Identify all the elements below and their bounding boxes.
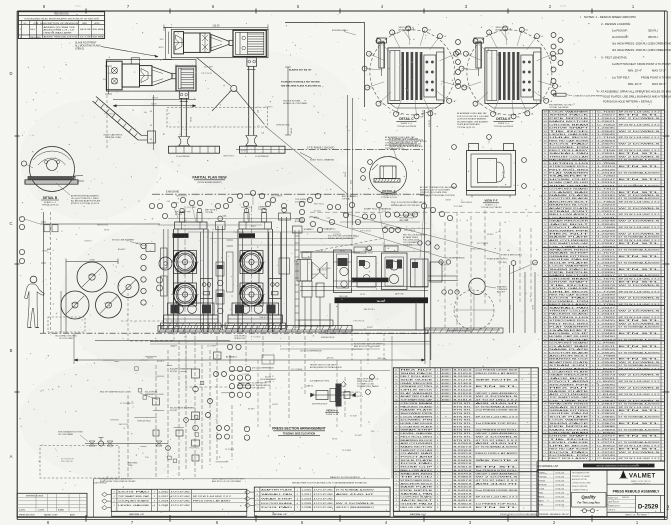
- svg-text:101: 101: [544, 137, 547, 139]
- svg-text:EXIST: EXIST: [426, 208, 432, 210]
- svg-text:SEE NOTE 4: SEE NOTE 4: [176, 196, 187, 198]
- svg-text:B-9460.8: B-9460.8: [454, 503, 474, 505]
- operator figure: [25, 276, 45, 327]
- svg-text:DRAWN: DRAWN: [539, 471, 546, 474]
- svg-text:67 T6 NOMINAL A-823592: 67 T6 NOMINAL A-823592: [336, 488, 375, 491]
- svg-text:B-9469.8: B-9469.8: [454, 507, 474, 509]
- customer section dashed box: [48, 317, 85, 340]
- svg-text:110.25: 110.25: [212, 24, 220, 27]
- svg-text:6: 6: [396, 490, 397, 492]
- svg-text:MIN. 40'-4": MIN. 40'-4": [628, 82, 642, 86]
- svg-text:3rd HIGH PRESS: 1500 PLI (145: 3rd HIGH PRESS: 1500 PLI (1450 OPERATING…: [612, 48, 671, 52]
- title block tolerance column: [537, 470, 571, 516]
- svg-text:R.T.W 4-98: R.T.W 4-98: [556, 476, 564, 478]
- svg-text:SEE NOTE 4: SEE NOTE 4: [97, 225, 108, 227]
- svg-text:13: 13: [544, 420, 546, 422]
- right lower balloons: [206, 372, 230, 440]
- svg-text:TIE ROD: TIE ROD: [549, 439, 591, 441]
- drive train couplings row: [297, 246, 458, 364]
- svg-text:TOP SHAFT END CAP: TOP SHAFT END CAP: [118, 495, 150, 498]
- svg-text:31: 31: [544, 362, 546, 364]
- basement components on risers: [93, 352, 221, 485]
- svg-text:ALL MOUNTING PLANS: ALL MOUNTING PLANS: [75, 44, 101, 47]
- svg-text:1-2324: 1-2324: [158, 501, 169, 503]
- elevation floor lines: [40, 330, 500, 364]
- svg-text:WASHOUT FLOOR ELEVATION: WASHOUT FLOOR ELEVATION: [330, 476, 360, 479]
- title block: [537, 470, 665, 516]
- svg-text:TO SUIT: TO SUIT: [350, 416, 358, 418]
- svg-text:1st BOTTOM FELT: FROM POINT A: 1st BOTTOM FELT: FROM POINT A TO POINT B: [612, 62, 671, 66]
- svg-text:COUPLING GUARD: COUPLING GUARD: [400, 496, 433, 499]
- svg-text:VIEW H-H: VIEW H-H: [326, 408, 338, 412]
- svg-text:W.E.HSIA: W.E.HSIA: [93, 36, 105, 39]
- svg-text:W/ 2 DOWELS: W/ 2 DOWELS: [336, 503, 376, 505]
- svg-text:2: 2: [396, 503, 397, 505]
- drive unit A pedestal shaft: [246, 58, 257, 146]
- svg-text:RECORD DIMENSIONS OF EXISTING: RECORD DIMENSIONS OF EXISTING EQUIPMENT: [597, 466, 641, 468]
- svg-text:47-TO-37 UNC: 47-TO-37 UNC: [314, 503, 334, 505]
- svg-text:LOCK WASHER: LOCK WASHER: [549, 111, 589, 114]
- svg-text:MAX 49'-3": MAX 49'-3": [652, 82, 666, 86]
- svg-text:MAIN MOTOR: MAIN MOTOR: [549, 120, 590, 123]
- svg-text:REFERENCE DWGS: REFERENCE DWGS: [26, 496, 44, 498]
- svg-text:R.T.W 4-98: R.T.W 4-98: [556, 492, 564, 494]
- svg-text:8: 8: [396, 483, 397, 485]
- svg-text:GROUP 1 (SEE ASSEMBLY): GROUP 1 (SEE ASSEMBLY): [336, 506, 374, 509]
- svg-text:APPROVE: APPROVE: [539, 483, 548, 486]
- pedestal dimension labels: [191, 110, 294, 134]
- svg-text:2nd PRESS DRIVE SIDE: 2nd PRESS DRIVE SIDE: [476, 369, 519, 371]
- svg-text:1-23014: 1-23014: [597, 118, 617, 120]
- machine centerline: [152, 191, 425, 195]
- svg-text:TOLER.: TOLER.: [539, 488, 546, 490]
- top margin scan smudges: [75, 4, 567, 7]
- svg-text:C-8352: C-8352: [597, 445, 617, 447]
- svg-text:HEX NUT: HEX NUT: [400, 369, 435, 371]
- svg-text:UHLE BOX: UHLE BOX: [400, 390, 434, 392]
- detail E roll section: [459, 26, 562, 128]
- svg-text:100: 100: [544, 140, 547, 142]
- svg-text:38: 38: [395, 383, 397, 385]
- svg-text:1-2317: 1-2317: [301, 494, 312, 496]
- svg-text:47-TO-37 UNC: 47-TO-37 UNC: [171, 496, 191, 498]
- note under detail C: [385, 112, 490, 150]
- bottom parts table B: [254, 487, 390, 516]
- svg-text:DATE: DATE: [82, 22, 87, 25]
- svg-text:B-9127.8: B-9127.8: [454, 379, 474, 381]
- svg-text:Quality: Quality: [581, 494, 596, 499]
- svg-text:1-2317: 1-2317: [158, 496, 169, 498]
- svg-text:EXIST: EXIST: [446, 200, 452, 202]
- svg-text:DOG PAD: DOG PAD: [118, 491, 151, 494]
- svg-text:1: 1: [396, 507, 397, 509]
- svg-text:47-TO-37 UNC: 47-TO-37 UNC: [314, 498, 334, 500]
- svg-text:SAVEALL PAN: SAVEALL PAN: [400, 492, 433, 495]
- svg-text:UNDER BRACKET AS A TEMPLATE: UNDER BRACKET AS A TEMPLATE: [389, 145, 423, 148]
- svg-text:E-S WASHOUT SPCL: E-S WASHOUT SPCL: [310, 379, 331, 382]
- center parts list table: [393, 368, 538, 516]
- view F-F frame section: [420, 135, 526, 209]
- felt roll 1: [77, 262, 107, 292]
- svg-text:ITEM 94 WAS LATER: ITEM 94 WAS LATER: [44, 32, 73, 35]
- svg-text:R.T.W 4-98: R.T.W 4-98: [556, 500, 564, 502]
- upper balloons row: [299, 201, 417, 224]
- tie brace diagonals with node: [197, 58, 265, 125]
- svg-text:SP 23 W 1-1/4 UNC 2 X 2: SP 23 W 1-1/4 UNC 2 X 2: [619, 445, 662, 447]
- svg-text:APPR: APPR: [95, 22, 101, 25]
- svg-text:ADDED (2) ITEM 126: ADDED (2) ITEM 126: [44, 26, 76, 29]
- svg-text:W/ 2 DOWELS: W/ 2 DOWELS: [619, 131, 662, 133]
- svg-text:(29 & 7.5) REFERENCE: (29 & 7.5) REFERENCE: [252, 368, 274, 370]
- svg-text:COPIED OR DISCLOSED: COPIED OR DISCLOSED: [572, 483, 591, 485]
- svg-text:STEM UP (IF) LOCATE PINS: STEM UP (IF) LOCATE PINS: [420, 191, 447, 194]
- svg-text:04-3-98: 04-3-98: [80, 29, 91, 31]
- svg-text:C-8404: C-8404: [597, 458, 617, 460]
- svg-text:88: 88: [544, 179, 546, 181]
- drive area foundation pads: [425, 328, 503, 333]
- svg-text:CUSTOM PILE: CUSTOM PILE: [93, 483, 107, 485]
- svg-text:VIEW F-F: VIEW F-F: [484, 199, 497, 203]
- bottom parts table A: [111, 489, 247, 516]
- svg-text:1st PRESS TOP ROLL: 1st PRESS TOP ROLL: [476, 502, 520, 505]
- svg-text:DRIVE SHAFT: DRIVE SHAFT: [549, 435, 590, 438]
- svg-text:FOR 1/2-13 UNC-2B X 1.00 DEEP: FOR 1/2-13 UNC-2B X 1.00 DEEP: [457, 116, 490, 118]
- svg-text:A: A: [10, 454, 13, 459]
- svg-text:99: 99: [544, 144, 546, 146]
- svg-text:30: 30: [544, 365, 546, 367]
- svg-text:2: 2: [667, 505, 670, 511]
- svg-text:3rd HIGH PRESS: 1500 PLI (135: 3rd HIGH PRESS: 1500 PLI (1350 OPERATING…: [612, 42, 671, 46]
- svg-text:HOUSING BASE, USE BLANKET: HOUSING BASE, USE BLANKET: [457, 120, 489, 123]
- svg-text:FIELD DRILL AT ASSY: FIELD DRILL AT ASSY: [193, 500, 232, 503]
- svg-text:PRESSURE + RELEASE NO. PBL-23-: PRESSURE + RELEASE NO. PBL-23-7: [539, 513, 569, 516]
- svg-text:7: 7: [396, 487, 397, 489]
- svg-text:MIN. 20'-4": MIN. 20'-4": [628, 69, 642, 73]
- felt roll 3: [96, 292, 122, 318]
- felt roll 4: [118, 277, 139, 298]
- svg-text:4: 4: [396, 497, 397, 499]
- svg-text:PRESS DRIVES & CONTROLS MECHAN: PRESS DRIVES & CONTROLS MECHANISM: [500, 513, 537, 516]
- svg-text:REVISIONS: REVISIONS: [54, 12, 68, 16]
- svg-text:HEX HD CAP SCRW: HEX HD CAP SCRW: [400, 506, 432, 509]
- drive unit B dimension lines: [103, 66, 196, 150]
- svg-text:5: 5: [396, 493, 397, 495]
- svg-text:1-2310: 1-2310: [301, 489, 312, 491]
- svg-text:SOLE PLATES, USE DRILL BUSHING: SOLE PLATES, USE DRILL BUSHINGS AND A TE…: [603, 95, 671, 99]
- svg-text:R.T.W 4-98: R.T.W 4-98: [556, 496, 564, 498]
- svg-text:17: 17: [544, 407, 546, 409]
- svg-text:REF LINE: REF LINE: [377, 358, 386, 360]
- svg-text:GUIDE PALM: GUIDE PALM: [400, 502, 433, 505]
- svg-text:MAX 72'-2": MAX 72'-2": [652, 69, 666, 73]
- press base plate 3rd press: [169, 146, 220, 158]
- svg-text:C: C: [9, 221, 12, 226]
- upper leader shelf lines: [158, 219, 430, 252]
- svg-text:47-TO-37 UNC: 47-TO-37 UNC: [314, 489, 334, 491]
- svg-text:SCALE 1 = 1: SCALE 1 = 1: [485, 203, 498, 206]
- plan view long dimension verticals: [345, 95, 431, 360]
- svg-text:E MACHINE: E MACHINE: [166, 191, 179, 194]
- svg-text:SP 23 W 1-1/4 UNC 2 X 2: SP 23 W 1-1/4 UNC 2 X 2: [476, 497, 520, 499]
- svg-text:PLATE AS A TEMPLATE: PLATE AS A TEMPLATE: [457, 123, 480, 126]
- svg-text:FELT ROLL: FELT ROLL: [353, 349, 363, 351]
- zone marker diamond at center table: [341, 382, 347, 388]
- svg-text:B-9424.8: B-9424.8: [454, 490, 474, 492]
- svg-text:D-2530: D-2530: [38, 509, 44, 511]
- svg-text:COUPLING GUARD: COUPLING GUARD: [118, 500, 150, 503]
- svg-text:104: 104: [544, 128, 547, 130]
- svg-text:VALMET CORP: VALMET CORP: [44, 513, 58, 516]
- svg-text:SCALE 1 = 10: SCALE 1 = 10: [326, 413, 338, 416]
- svg-text:85: 85: [544, 189, 546, 191]
- notes above bottom tables: [93, 476, 390, 485]
- balloon column between details: [456, 40, 461, 85]
- svg-text:TO SUIT: TO SUIT: [355, 435, 363, 437]
- foundation hatched strip: [150, 326, 430, 345]
- svg-text:16: 16: [544, 410, 546, 412]
- mid drive balloons: [418, 241, 459, 294]
- svg-text:DOG PAD: DOG PAD: [261, 506, 294, 509]
- svg-text:FRAC.: FRAC.: [539, 491, 545, 494]
- svg-text:67 T6 NOMINAL A-823592: 67 T6 NOMINAL A-823592: [619, 441, 662, 444]
- machine centerline phase 1: [286, 146, 426, 161]
- svg-text:SP 23 W 1-1/4 UNC 2 X 2: SP 23 W 1-1/4 UNC 2 X 2: [619, 124, 662, 126]
- svg-text:103: 103: [544, 131, 547, 133]
- svg-text:x rrv-a: x rrv-a: [75, 5, 82, 7]
- svg-text:21: 21: [544, 394, 546, 396]
- drive support feet: [325, 303, 428, 333]
- svg-text:PIPE NIPPLE: PIPE NIPPLE: [400, 490, 434, 492]
- svg-text:WEAR STRIP: WEAR STRIP: [261, 497, 293, 500]
- svg-text:20: 20: [544, 397, 546, 399]
- svg-text:TYPICAL 2nd PRESS: TYPICAL 2nd PRESS: [397, 125, 417, 128]
- svg-text:SEE NOTE 4: SEE NOTE 4: [476, 379, 521, 381]
- svg-text:110: 110: [258, 110, 260, 113]
- svg-text:OF CUSTOMER: OF CUSTOMER: [59, 338, 74, 340]
- svg-text:97: 97: [544, 150, 546, 152]
- svg-text:FELT ROLL ASSY: FELT ROLL ASSY: [549, 457, 590, 460]
- svg-text:GRP 1: GRP 1: [355, 392, 361, 394]
- svg-text:ETN STL: ETN STL: [619, 449, 664, 451]
- svg-text:350 PLI: 350 PLI: [648, 29, 658, 33]
- svg-text:GREASE FITTING: GREASE FITTING: [400, 385, 433, 388]
- svg-text:FIELD DRILL AT ASSY: FIELD DRILL AT ASSY: [476, 372, 519, 375]
- svg-text:R.T.W 4-98: R.T.W 4-98: [556, 484, 564, 486]
- press section arrangement title: [272, 427, 326, 436]
- svg-text:34: 34: [395, 396, 397, 398]
- svg-text:SHIM PACK: SHIM PACK: [549, 114, 590, 117]
- svg-text:3: 3: [396, 500, 397, 502]
- svg-text:79: 79: [544, 208, 546, 210]
- svg-text:9: 9: [396, 480, 397, 482]
- svg-text:POLEEN DRILL PAPER: POLEEN DRILL PAPER: [357, 385, 379, 388]
- svg-text:1st TOP FELT:: 1st TOP FELT:: [612, 76, 630, 80]
- svg-text:42: 42: [395, 369, 397, 371]
- svg-text:PRESS SECTION ARRANGEMENT: PRESS SECTION ARRANGEMENT: [272, 427, 326, 431]
- svg-text:34: 34: [544, 352, 546, 354]
- svg-text:SHIM PACK: SHIM PACK: [400, 372, 434, 375]
- height unit note: [238, 382, 271, 389]
- svg-text:TENDING SIDE ELEVATION: TENDING SIDE ELEVATION: [283, 432, 316, 435]
- svg-text:26: 26: [544, 378, 546, 380]
- svg-text:ADDED ITEMS 1-73 + 127: ADDED ITEMS 1-73 + 127: [44, 29, 76, 32]
- right parts list table: [542, 93, 667, 461]
- svg-text:198.25: 198.25: [423, 109, 425, 116]
- basement left dashed rectangle: [40, 446, 119, 479]
- svg-text:LEVEL GAUGE: LEVEL GAUGE: [549, 441, 590, 444]
- svg-text:FOR EACH HOLE PATTERN + DETAIL: FOR EACH HOLE PATTERN + DETAILS: [603, 100, 652, 104]
- felt guide window boxes: [201, 232, 281, 330]
- svg-text:B-8841: B-8841: [58, 509, 64, 511]
- partial plan view title: [192, 176, 227, 184]
- svg-text:PRESS REBUILD ASSEMBLY: PRESS REBUILD ASSEMBLY: [613, 489, 661, 493]
- press base plate 3/4 press: [236, 146, 289, 158]
- left elevation extent line: [41, 212, 51, 333]
- plan area extra dimension lines: [40, 67, 347, 232]
- svg-text:DN FORCE SLIP: DN FORCE SLIP: [312, 403, 328, 405]
- svg-text:TO SUIT: TO SUIT: [242, 374, 250, 376]
- svg-text:AND STILL LID OF CUSTOMER: AND STILL LID OF CUSTOMER: [212, 480, 242, 483]
- svg-text:ECN REQUIRED ON ALL REVISIONS: ECN REQUIRED ON ALL REVISIONS AFFECTING …: [25, 17, 100, 20]
- svg-text:1 STAR BOLT (2 AT) (PER PRESS): 1 STAR BOLT (2 AT) (PER PRESS): [573, 94, 603, 97]
- svg-text:15: 15: [544, 413, 546, 415]
- svg-text:3 - FELT LENGTHS:: 3 - FELT LENGTHS:: [601, 56, 627, 60]
- svg-text:FELT ROLL ASSY: FELT ROLL ASSY: [400, 375, 433, 378]
- svg-text:W.E.HSIA: W.E.HSIA: [93, 28, 105, 31]
- right posts pair: [161, 208, 303, 330]
- bottom table A flag diamonds: [102, 492, 112, 510]
- svg-text:1-2324: 1-2324: [301, 498, 312, 500]
- svg-text:TACK WELD: TACK WELD: [495, 26, 507, 29]
- title block quality column: [572, 471, 607, 512]
- svg-text:105: 105: [544, 124, 547, 126]
- svg-text:SP 23 W 1-1/4 UNC 2 X 2: SP 23 W 1-1/4 UNC 2 X 2: [193, 496, 232, 498]
- svg-text:CONSENT FORM 102: CONSENT FORM 102: [572, 489, 588, 491]
- right area dashed verticals: [445, 210, 531, 333]
- svg-text:PRESS SECTION: PRESS SECTION: [19, 514, 35, 516]
- steam exhaust valve line: [58, 430, 168, 446]
- svg-text:(75 & 7.5) REFERENCE: (75 & 7.5) REFERENCE: [300, 350, 322, 352]
- press tower 2: [225, 206, 286, 340]
- svg-text:UHLE BOX: UHLE BOX: [549, 445, 591, 447]
- svg-text:MATERIAL LIST: MATERIAL LIST: [410, 513, 427, 516]
- svg-text:3.50: 3.50: [241, 383, 245, 385]
- svg-text:CHK R.S.: CHK R.S.: [608, 510, 616, 512]
- drive base black bar: [335, 297, 429, 303]
- svg-text:2nd PRESS DRIVE SIDE: 2nd PRESS DRIVE SIDE: [476, 490, 519, 492]
- svg-text:SCALE 1 = 1: SCALE 1 = 1: [498, 122, 511, 125]
- svg-text:4 - AT ASSEMBLY, SPRAY ALL OPE: 4 - AT ASSEMBLY, SPRAY ALL OPERATING HOL…: [597, 90, 671, 94]
- right elevation verticals: [445, 254, 537, 333]
- svg-text:AND STILL LID OF CUSTOMER: AND STILL LID OF CUSTOMER: [420, 189, 450, 192]
- svg-text:18: 18: [544, 404, 546, 406]
- svg-text:DOCTOR BLADE: DOCTOR BLADE: [261, 502, 293, 505]
- svg-text:NOTE 3: NOTE 3: [85, 241, 92, 243]
- svg-text:92: 92: [544, 166, 546, 168]
- lower elevation guide outline: [128, 293, 342, 387]
- foundation note: [281, 69, 321, 88]
- svg-text:32: 32: [544, 359, 546, 361]
- svg-text:D-2531: D-2531: [19, 509, 25, 511]
- svg-text:B-9118.8: B-9118.8: [454, 376, 474, 378]
- svg-text:SEE ANOTHER FLOOR PLAN VIEW (C: SEE ANOTHER FLOOR PLAN VIEW (CTRL TO AIR…: [292, 481, 367, 484]
- svg-text:R.T.W 4-98: R.T.W 4-98: [556, 472, 564, 474]
- svg-text:23: 23: [544, 388, 546, 390]
- svg-text:90: 90: [544, 172, 546, 174]
- svg-text:108: 108: [544, 115, 547, 117]
- svg-text:47-TO-37 UNC: 47-TO-37 UNC: [314, 507, 334, 509]
- svg-text:36: 36: [395, 390, 397, 392]
- svg-text:W/ KEY: W/ KEY: [248, 408, 255, 410]
- svg-text:t na vii.: t na vii.: [560, 4, 567, 7]
- svg-text:EXIST: EXIST: [173, 203, 179, 205]
- existing wall boundary: [283, 22, 365, 107]
- svg-text:ADDED ITEM (28)-128 9/16: ADDED ITEM (28)-128 9/16: [44, 36, 79, 39]
- svg-text:MATERIAL LIST: MATERIAL LIST: [272, 513, 288, 516]
- svg-text:ETN STL: ETN STL: [619, 436, 664, 438]
- existing cylinder circle: [454, 278, 508, 330]
- drive mid black bar: [352, 278, 389, 283]
- svg-text:ASSBLY: ASSBLY: [442, 375, 452, 378]
- svg-text:1-23007: 1-23007: [597, 115, 617, 117]
- svg-text:SLAVE FOOTPRINT: SLAVE FOOTPRINT: [75, 41, 97, 44]
- reference line above view H-H: [230, 360, 390, 427]
- svg-text:PIPE NIPPLE: PIPE NIPPLE: [549, 118, 590, 120]
- svg-text:1st PICKUP:: 1st PICKUP:: [612, 29, 628, 33]
- svg-text:1-2331: 1-2331: [158, 505, 169, 507]
- svg-text:24: 24: [544, 384, 546, 386]
- svg-text:102: 102: [544, 134, 547, 136]
- svg-text:SP 23 W 1-1/4 UNC 2 X 2: SP 23 W 1-1/4 UNC 2 X 2: [619, 112, 662, 114]
- svg-text:16.75: 16.75: [158, 47, 164, 49]
- press tower 1: [161, 206, 222, 340]
- svg-text:SHIM AS REQD: SHIM AS REQD: [340, 391, 354, 394]
- svg-text:3.50: 3.50: [426, 195, 430, 197]
- svg-text:10: 10: [395, 477, 397, 479]
- svg-text:ASSY: ASSY: [70, 513, 76, 516]
- svg-text:25: 25: [544, 381, 546, 383]
- svg-text:JACK BOLT: JACK BOLT: [400, 499, 434, 502]
- svg-text:AND STILL UP OF CULVERT: AND STILL UP OF CULVERT: [354, 345, 381, 348]
- svg-text:For The Long Run: For The Long Run: [577, 500, 600, 504]
- svg-text:GEAR REDUCER: GEAR REDUCER: [400, 382, 433, 385]
- svg-text:R.T.W 4-98: R.T.W 4-98: [556, 504, 564, 506]
- svg-text:C-7000: C-7000: [597, 112, 617, 114]
- no material list bar: [537, 461, 665, 469]
- general notes block: [584, 15, 671, 104]
- felt roll 2: [61, 291, 89, 319]
- svg-text:SEE NOTE 4: SEE NOTE 4: [352, 396, 363, 398]
- svg-text:SAVEALL PAN: SAVEALL PAN: [261, 493, 293, 496]
- svg-text:91: 91: [544, 169, 546, 171]
- svg-text:FLOOR: FLOOR: [265, 381, 272, 383]
- photocopy shading patches: [20, 50, 660, 490]
- svg-text:TYPICAL (4) PLCS: TYPICAL (4) PLCS: [457, 126, 475, 129]
- slave footprint note: [75, 41, 158, 57]
- svg-text:14: 14: [544, 416, 546, 418]
- svg-text:SURF.: SURF.: [539, 504, 544, 506]
- svg-text:84: 84: [544, 192, 546, 194]
- svg-text:TYPICAL (10) PLACES: TYPICAL (10) PLACES: [481, 206, 502, 209]
- svg-text:96: 96: [544, 153, 546, 155]
- svg-text:B-9451.8: B-9451.8: [454, 500, 474, 502]
- svg-text:EXISTING WALL: EXISTING WALL: [332, 29, 349, 32]
- svg-text:1-2331: 1-2331: [301, 503, 312, 505]
- svg-text:22: 22: [544, 391, 546, 393]
- stock line element note: [112, 240, 155, 252]
- svg-text:DRAWN W.E.H.: DRAWN W.E.H.: [608, 505, 621, 508]
- svg-text:B-9145.8: B-9145.8: [454, 386, 474, 388]
